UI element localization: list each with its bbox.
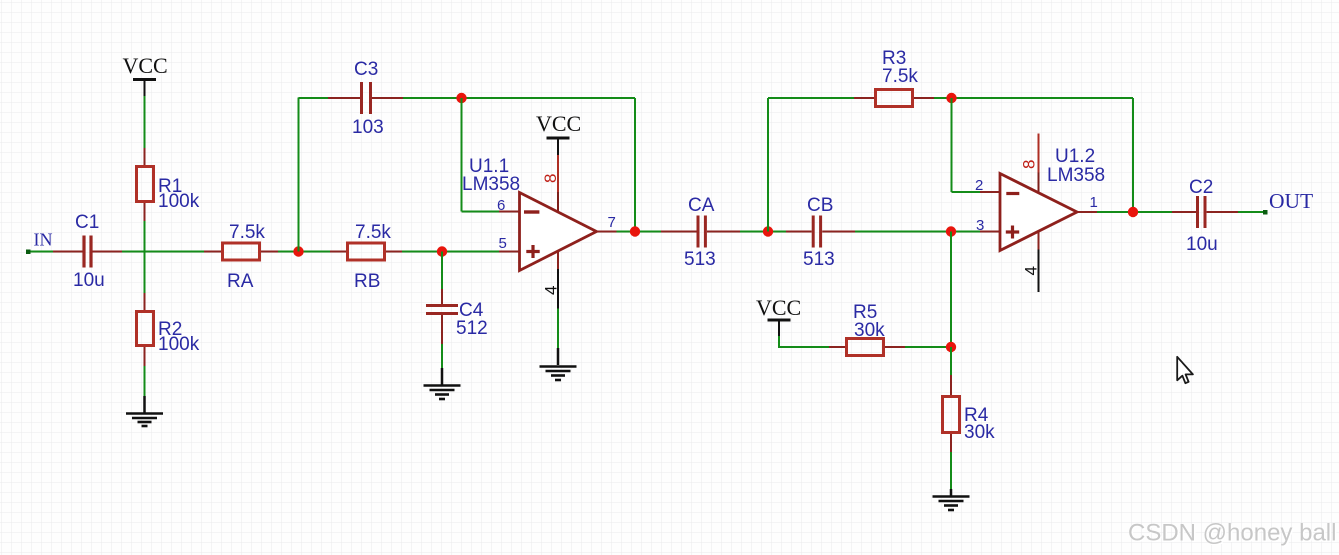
ground under U1.1 pin4 [540,348,577,380]
capacitor CA plates [697,216,700,248]
ground under R4 [933,489,970,510]
op-amp U1.2 minus [1006,192,1019,195]
svg-text:C2: C2 [1189,177,1213,198]
wire junction down to R5 junction [950,232,952,348]
op-amp U1.2 pin 1 lead [1077,211,1097,213]
op-amp U1.2 pin 8 lead [1038,134,1040,173]
wire feedback right vertical (to R3) [767,98,769,232]
wire pin4 to ground [557,309,559,349]
op-amp U1.1 plus [526,250,539,253]
ground under R2 [126,396,163,426]
op-amp U1.2 pin 2 lead [980,191,1000,193]
resistor R3 body [876,90,913,107]
resistor RB body [348,243,385,260]
junction U1.2 output node [1128,207,1138,217]
wire top right vertical to output [634,98,636,232]
svg-text:C3: C3 [354,59,378,80]
op-amp U1.1 pin 4 lead [557,252,559,269]
junction top C3 node [456,93,466,103]
resistor R4 leads [950,375,952,397]
node OUT endpoint dot [1263,210,1268,215]
resistor RA leads [204,251,222,253]
svg-text:10u: 10u [73,270,105,291]
svg-text:VCC: VCC [123,53,168,78]
svg-text:LM358: LM358 [1047,165,1105,186]
svg-text:U1.2: U1.2 [1055,146,1095,167]
wire top right vertical to U1.2 output [1132,98,1134,212]
wire R3 to corner [934,97,1133,99]
junction R3 output node [946,93,956,103]
svg-text:IN: IN [34,230,53,250]
ground under C4 [424,368,461,399]
wire C2 to OUT [1238,211,1265,213]
wire to pin6 [462,211,500,213]
capacitor C3 leads [328,97,360,99]
svg-text:CA: CA [688,195,715,216]
svg-text:RA: RA [227,271,254,292]
svg-text:5: 5 [499,235,507,252]
wire C1 to RA [122,251,204,253]
svg-text:513: 513 [803,249,835,270]
wire IN to C1 [28,251,53,253]
svg-text:7.5k: 7.5k [229,222,265,243]
wire CB to pin3 [855,231,980,233]
resistor R2 body [137,312,154,346]
capacitor C1 plates [82,236,85,268]
junction RB-C4 node [437,246,447,256]
svg-text:2: 2 [975,177,983,194]
op-amp U1.1 minus [524,210,539,213]
svg-text:LM358: LM358 [462,174,520,195]
wire junction down to pin2 [951,98,953,192]
wire VCC column green upper [144,96,146,148]
svg-text:4: 4 [542,286,561,295]
wire RB to pin5 [402,251,499,253]
junction U1.1 output node [630,226,640,236]
junction R5-R4 node [946,342,956,352]
svg-text:VCC: VCC [756,295,801,320]
wire R4 to ground [950,452,952,489]
svg-text:CSDN @honey ball: CSDN @honey ball [1128,520,1336,547]
svg-text:10u: 10u [1186,234,1218,255]
svg-text:103: 103 [352,117,384,138]
resistor R4 body [943,397,960,433]
wire junction to R4 [950,347,952,375]
op-amp U1.2 [975,134,1105,293]
svg-text:8: 8 [541,174,560,183]
resistor RB leads [330,251,347,253]
wire to pin2 [952,191,981,193]
mouse cursor [1177,357,1193,383]
resistor R1 leads [144,148,146,166]
wire C3 to junction [403,97,635,99]
wire R5 to junction [905,346,951,348]
wire junction down to C4 [441,252,443,290]
wire top to C3 [299,97,329,99]
svg-text:1: 1 [1090,194,1098,211]
svg-text:CB: CB [807,195,833,216]
wire C4 to ground [441,344,443,368]
resistor R1 body [137,167,154,202]
node IN endpoint dot [26,250,31,255]
svg-text:8: 8 [1020,160,1039,169]
wire top to R3 [768,97,854,99]
svg-text:30k: 30k [964,422,995,443]
op-amp U1.2 triangle [1000,174,1077,251]
capacitor CB plates [812,216,815,248]
svg-text:100k: 100k [158,191,200,212]
junction CB-feedback node [763,226,773,236]
op-amp U1.2 plus [1006,230,1019,233]
resistor R5 body [847,339,884,356]
op-amp U1.1 [462,155,617,309]
capacitor C4 plates [426,304,458,307]
svg-text:100k: 100k [158,334,200,355]
svg-text:VCC: VCC [536,111,581,136]
svg-text:7: 7 [608,214,616,231]
wire CA to CB [740,231,786,233]
wire RA to RB [278,251,330,253]
wire feedback left vertical [298,98,300,252]
capacitor CA leads [661,231,697,233]
wire pin1 to junction [1097,211,1138,213]
capacitor C2 plates [1196,196,1199,228]
resistor R2 leads [144,293,146,311]
junction RA-RB node [293,246,303,256]
op-amp U1.1 triangle [520,193,597,271]
op-amp U1.2 pin 4 lead [1038,232,1040,250]
op-amp U1.1 pin 8 lead [557,155,559,192]
op-amp U1.2 pin 3 lead [980,231,1000,233]
svg-text:512: 512 [456,318,488,339]
resistor RA body [223,243,260,260]
svg-text:6: 6 [497,197,505,214]
wire R1 to R2 [144,221,146,293]
wire output to CA [640,231,661,233]
svg-text:RB: RB [354,271,380,292]
wire VCC to R5 [779,336,829,347]
svg-text:C1: C1 [75,212,99,233]
capacitor CB leads [786,231,812,233]
svg-text:513: 513 [684,249,716,270]
capacitor C2 leads [1172,211,1196,213]
capacitor C1 leads [53,251,83,253]
svg-text:3: 3 [976,217,984,234]
capacitor C4 leads [441,289,443,304]
wire R2 to ground [144,366,146,396]
op-amp U1.1 pin 7 lead [597,231,617,233]
resistor R3 leads [854,97,875,99]
svg-text:30k: 30k [854,320,885,341]
svg-text:7.5k: 7.5k [355,222,391,243]
op-amp U1.1 pin 5 lead [499,251,520,253]
wire junction down to pin6 [461,98,463,212]
svg-text:4: 4 [1022,266,1041,275]
op-amp U1.1 pin 6 lead [499,211,520,213]
svg-text:OUT: OUT [1269,189,1313,213]
wire pin7 to junction [617,231,661,233]
resistor R5 leads [829,346,846,348]
wire output to C2 [1138,211,1172,213]
junction pin3 node [946,226,956,236]
capacitor C3 plates [360,82,363,114]
svg-text:7.5k: 7.5k [882,66,918,87]
